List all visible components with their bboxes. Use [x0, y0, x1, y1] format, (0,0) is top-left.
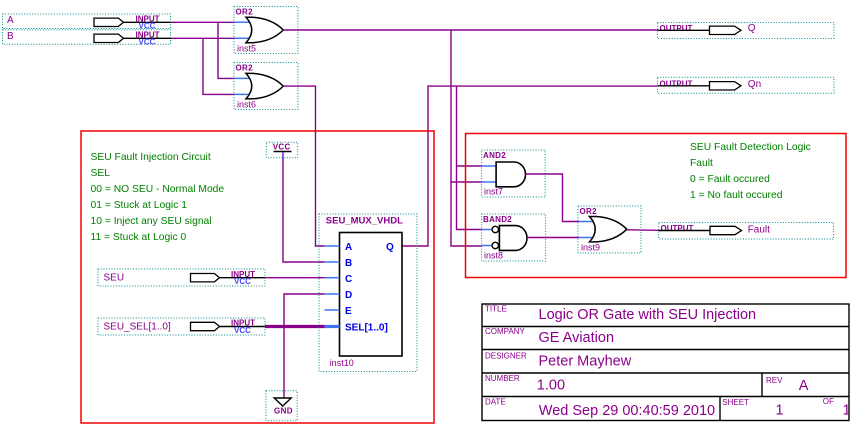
or-gate OR2 inst6 — [234, 63, 298, 110]
input pin A — [3, 14, 171, 31]
svg-text:0 = Fault occured: 0 = Fault occured — [690, 174, 770, 185]
svg-text:11 = Stuck at Logic 0: 11 = Stuck at Logic 0 — [91, 232, 187, 243]
svg-text:SHEET: SHEET — [722, 398, 749, 407]
svg-text:Qn: Qn — [748, 79, 761, 90]
svg-text:DATE: DATE — [485, 398, 506, 407]
wire VCC to MUX input B — [283, 158, 325, 262]
svg-text:OUTPUT: OUTPUT — [661, 224, 694, 233]
wire net Fault (inst9 output) — [627, 229, 659, 232]
svg-text:Q: Q — [748, 23, 756, 34]
mux SEU_MUX_VHDL inst10 — [319, 214, 417, 372]
wire inst8 output to inst9 input 2 — [527, 237, 579, 239]
svg-text:SEU_MUX_VHDL: SEU_MUX_VHDL — [326, 216, 403, 227]
svg-text:SEL: SEL — [91, 168, 111, 179]
svg-text:A: A — [345, 242, 352, 253]
svg-text:1: 1 — [843, 403, 851, 419]
svg-text:AND2: AND2 — [483, 151, 506, 160]
SEU fault detection region box — [466, 134, 847, 278]
svg-text:E: E — [345, 306, 352, 317]
wire net A — [171, 22, 235, 78]
svg-text:DESIGNER: DESIGNER — [485, 351, 527, 360]
svg-text:D: D — [345, 290, 352, 301]
svg-text:inst5: inst5 — [237, 44, 256, 54]
svg-text:Logic OR Gate with SEU Injecti: Logic OR Gate with SEU Injection — [539, 307, 757, 323]
svg-text:inst9: inst9 — [581, 243, 600, 253]
wire net B — [171, 38, 235, 94]
svg-text:SEU_SEL[1..0]: SEU_SEL[1..0] — [104, 322, 171, 333]
svg-text:B: B — [345, 258, 352, 269]
or-gate OR2 inst5 — [234, 7, 298, 54]
svg-text:SEL[1..0]: SEL[1..0] — [345, 323, 388, 334]
svg-text:OR2: OR2 — [236, 64, 254, 73]
vcc symbol — [266, 142, 297, 158]
wire inst7 output to inst9 input 1 — [526, 174, 579, 222]
svg-text:B: B — [7, 31, 14, 42]
or-gate OR2 inst9 — [578, 206, 641, 253]
svg-text:inst6: inst6 — [237, 100, 256, 110]
wire net inst6 output to MUX input A — [283, 86, 324, 246]
output pin Q — [658, 23, 835, 39]
svg-text:REV: REV — [766, 376, 783, 385]
svg-text:1 = No fault occured: 1 = No fault occured — [690, 190, 783, 201]
svg-text:SEU Fault Detection Logic: SEU Fault Detection Logic — [690, 142, 811, 153]
svg-text:COMPANY: COMPANY — [485, 327, 526, 336]
and-gate AND2 inst7 — [482, 150, 545, 197]
wire SEU to MUX input C — [265, 277, 325, 279]
comment text: injection circuit notes — [91, 152, 225, 243]
svg-text:NUMBER: NUMBER — [485, 374, 520, 383]
svg-text:OUTPUT: OUTPUT — [660, 79, 693, 88]
gnd symbol — [266, 391, 297, 421]
svg-text:Fault: Fault — [690, 158, 713, 169]
input pin SEU_SEL[1..0] — [98, 318, 265, 335]
svg-text:Wed Sep 29 00:40:59 2010: Wed Sep 29 00:40:59 2010 — [539, 403, 715, 419]
output pin Fault — [659, 223, 834, 240]
wire MUX input D to GND — [284, 294, 325, 398]
svg-text:OUTPUT: OUTPUT — [660, 24, 693, 33]
svg-text:Fault: Fault — [748, 225, 770, 236]
output pin Qn — [658, 77, 835, 93]
svg-text:OR2: OR2 — [236, 8, 254, 17]
svg-text:SEU Fault Injection Circuit: SEU Fault Injection Circuit — [91, 152, 211, 163]
title block — [482, 304, 851, 421]
svg-text:VCC: VCC — [234, 326, 251, 335]
svg-text:00 = NO SEU - Normal Mode: 00 = NO SEU - Normal Mode — [91, 184, 225, 195]
wire net Q (inst5 output to OUTPUT Q and detection) — [283, 30, 658, 246]
svg-text:OF: OF — [823, 397, 834, 406]
svg-text:A: A — [799, 378, 809, 394]
SEU fault injection region box — [81, 131, 434, 423]
band-gate BAND2 inst8 — [482, 214, 546, 261]
svg-text:10 = Inject any SEU signal: 10 = Inject any SEU signal — [91, 216, 212, 227]
svg-text:SEU: SEU — [104, 273, 125, 284]
svg-text:inst10: inst10 — [330, 358, 354, 368]
svg-text:GND: GND — [274, 407, 293, 416]
bus SEU_SEL to MUX SEL[1..0] — [265, 325, 325, 328]
svg-text:A: A — [7, 15, 14, 26]
svg-text:inst7: inst7 — [484, 187, 503, 197]
input pin SEU — [98, 269, 265, 286]
svg-text:BAND2: BAND2 — [483, 215, 512, 224]
svg-text:VCC: VCC — [234, 277, 251, 286]
svg-text:GE Aviation: GE Aviation — [539, 330, 615, 346]
svg-text:Peter Mayhew: Peter Mayhew — [539, 353, 632, 369]
svg-text:Q: Q — [386, 242, 394, 253]
svg-text:1: 1 — [776, 403, 784, 419]
comment text: detection logic notes — [690, 142, 811, 201]
wire net Qn (MUX Q output to OUTPUT Qn and detection) — [402, 86, 658, 246]
svg-text:1.00: 1.00 — [537, 378, 565, 394]
svg-text:VCC: VCC — [273, 143, 291, 152]
input pin B — [3, 30, 171, 47]
svg-text:01 = Stuck at Logic 1: 01 = Stuck at Logic 1 — [91, 200, 188, 211]
svg-text:OR2: OR2 — [580, 207, 598, 216]
svg-text:C: C — [345, 274, 352, 285]
svg-text:VCC: VCC — [139, 38, 156, 47]
svg-text:inst8: inst8 — [484, 251, 503, 261]
svg-text:TITLE: TITLE — [485, 305, 507, 314]
